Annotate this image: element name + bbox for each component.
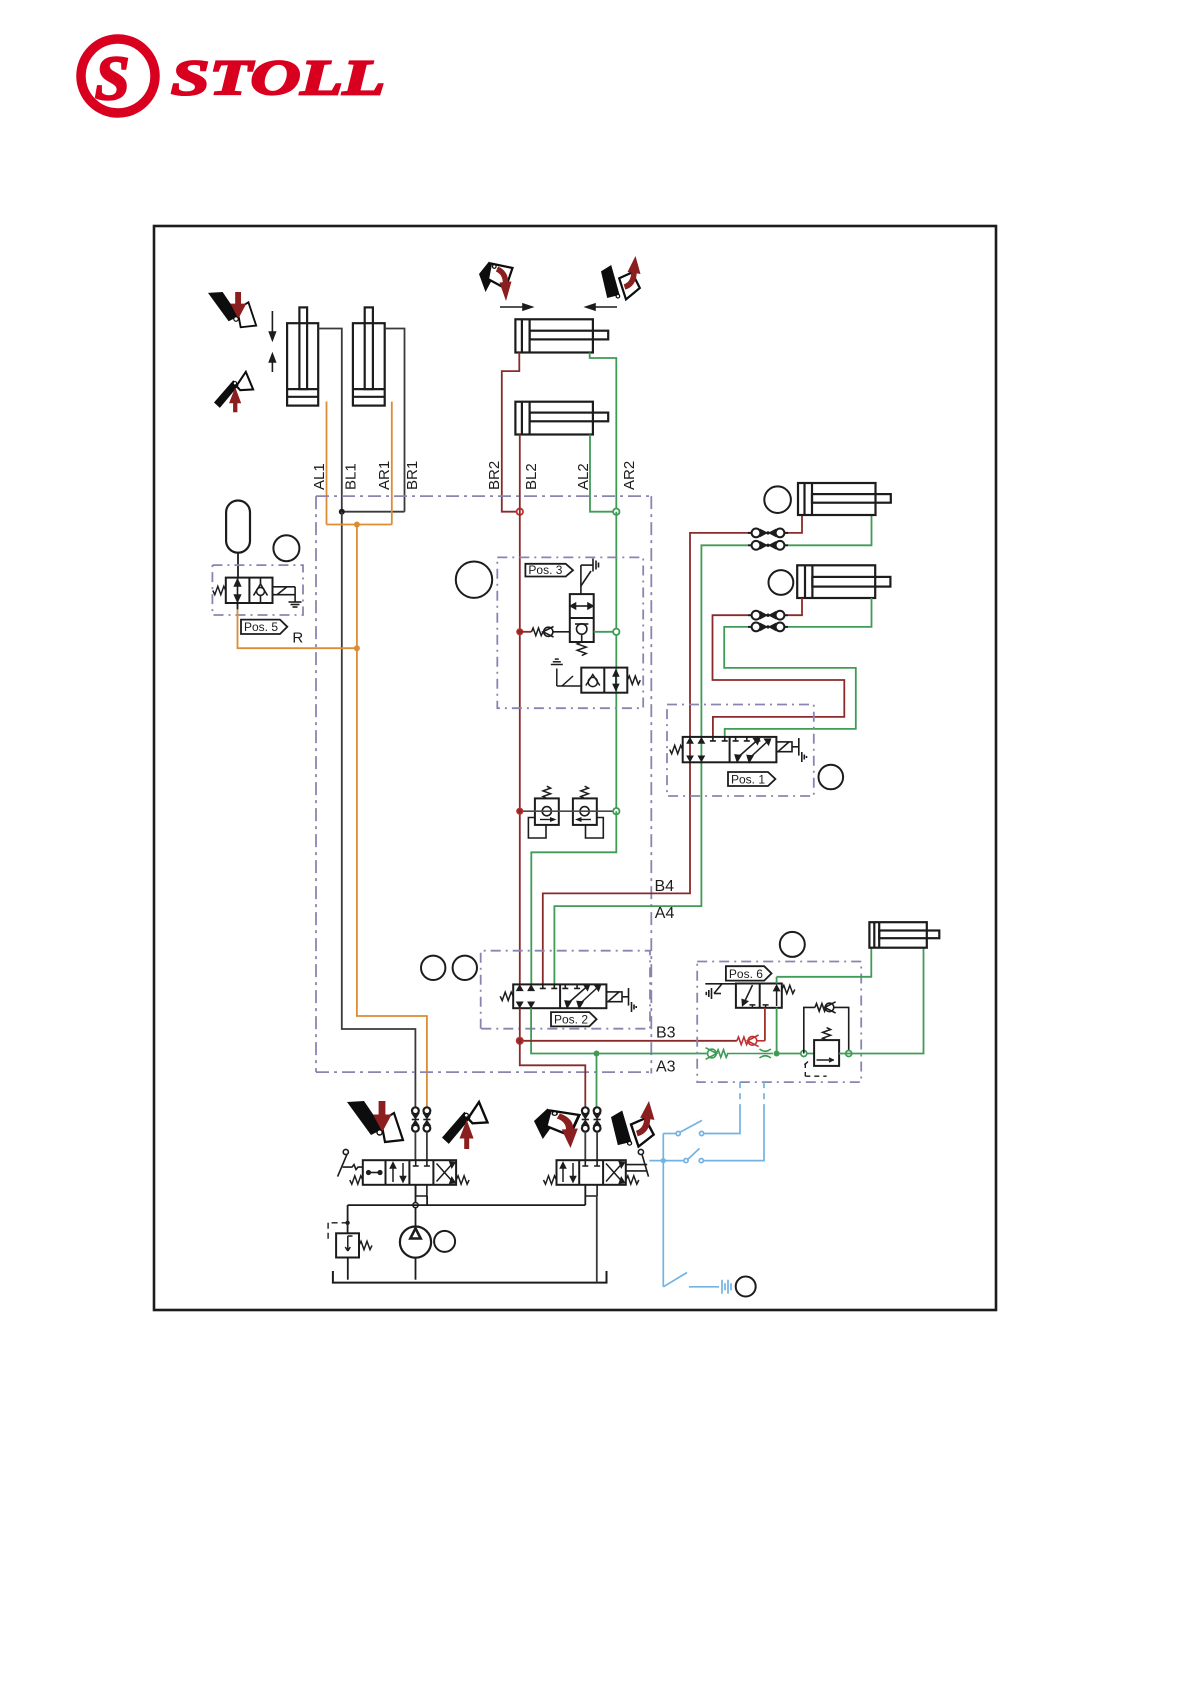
wire A3 (green below pos2) bbox=[531, 1008, 707, 1053]
svg-text:BL2: BL2 bbox=[523, 463, 540, 490]
aux cylinder 5 (pos6) bbox=[869, 922, 939, 948]
quick coupler A3 bbox=[594, 1107, 601, 1131]
quick coupler AL1 bbox=[423, 1107, 430, 1131]
pilot 2/2 arrows bbox=[613, 670, 618, 690]
left valve springs bbox=[350, 1176, 363, 1184]
right valve lever bbox=[626, 1149, 649, 1176]
valve Pos.3 lever bbox=[581, 559, 599, 595]
wire B4 (maroon) bbox=[543, 515, 802, 984]
balloon circle (pos3 area) bbox=[456, 562, 492, 598]
Pos.6 dashed box bbox=[697, 962, 861, 1083]
quick coupler B3 bbox=[582, 1107, 589, 1131]
loader icon lift-up (above left valve) bbox=[442, 1102, 488, 1149]
wire AR1 (orange) bbox=[391, 402, 393, 525]
valve Pos.2 lever bbox=[606, 988, 636, 1012]
flow restrictor green bbox=[758, 1049, 773, 1058]
valve Pos.3 lockable check bbox=[570, 594, 594, 642]
valve Pos.1 lever bbox=[776, 738, 806, 762]
valve Pos.2 body bbox=[513, 984, 606, 1008]
svg-text:BR1: BR1 bbox=[404, 461, 421, 490]
right valve drain bbox=[596, 1196, 598, 1283]
valve Pos.2 spring bbox=[500, 992, 513, 1000]
wire AR2 main down bbox=[615, 512, 617, 812]
loader boundary dash-dot box bbox=[316, 496, 651, 1073]
junction R/AL1 bbox=[354, 645, 360, 651]
pos3 tap check bbox=[543, 627, 570, 638]
wire green to reducing valve bbox=[777, 1053, 815, 1055]
tilt cylinder lower (BL2/AL2) bbox=[515, 402, 608, 435]
balloon circle cyl3 bbox=[764, 486, 791, 513]
control valve left (4/3) body bbox=[363, 1160, 456, 1185]
loader icon lift-down (above left valve) bbox=[347, 1101, 403, 1142]
wire A3 branch down bbox=[596, 1054, 598, 1108]
wire BL1 main down bbox=[342, 512, 416, 1108]
wire B3 horizontal bbox=[520, 1040, 737, 1042]
aux cylinder 3 (top right) bbox=[798, 483, 891, 515]
balloon circle pos6 bbox=[780, 932, 805, 957]
junction BL2 tap bbox=[517, 629, 523, 635]
flag Pos. 2 bbox=[551, 1012, 597, 1027]
right valve sect3 cross bbox=[606, 1162, 625, 1184]
junction AL2/AR2 bbox=[613, 509, 619, 515]
wire pos6 green top to cyl5 bbox=[777, 948, 872, 977]
svg-text:S: S bbox=[95, 45, 129, 113]
flag Pos. 6 bbox=[726, 966, 772, 981]
wire R (orange) bbox=[238, 609, 357, 648]
svg-text:STOLL: STOLL bbox=[171, 49, 385, 105]
junction bypass left bbox=[801, 1051, 807, 1057]
valve Pos.3 spring below bbox=[577, 642, 586, 656]
pump aux circle bbox=[434, 1231, 455, 1252]
wire pos6 green vertical bbox=[776, 977, 778, 1054]
balloon circles pos2 bbox=[421, 956, 445, 980]
arrow right (tilt) bbox=[500, 304, 532, 310]
junction reducing out bbox=[846, 1051, 852, 1057]
valve Pos.2 straight arrows bbox=[517, 986, 534, 1007]
wire AL1 main down bbox=[357, 525, 427, 1108]
wire A4 (green) bbox=[554, 515, 871, 984]
svg-text:R: R bbox=[292, 629, 303, 646]
svg-text:BR2: BR2 bbox=[486, 461, 503, 490]
bypass line with check bbox=[804, 1002, 849, 1054]
wire red up to valve bbox=[764, 1008, 766, 1041]
junction AR2 tap bbox=[613, 629, 619, 635]
wire AL2 (green) bbox=[590, 435, 616, 512]
valve Pos.5 spring bbox=[213, 586, 226, 594]
wire BR2 (maroon) bbox=[502, 353, 520, 512]
junction BL1 bbox=[339, 509, 345, 515]
electric wire dashes to pos6 bbox=[740, 1082, 764, 1110]
valve Pos.2 port feet bbox=[540, 984, 580, 988]
check valve red bbox=[748, 1035, 765, 1047]
valve Pos.6 right square arrow bbox=[774, 986, 779, 1006]
balloon circle cyl4 bbox=[769, 570, 794, 595]
valve Pos.6 left square symbols bbox=[742, 985, 768, 1008]
arrow left (tilt) bbox=[586, 304, 617, 310]
wire B3 (maroon below pos2) bbox=[519, 1008, 521, 1041]
left valve sect4 cross bbox=[437, 1162, 456, 1184]
drawing frame bbox=[154, 226, 996, 1310]
pos3 tap line maroon bbox=[520, 631, 532, 633]
junction AR2 at counterbalance bbox=[613, 808, 619, 814]
relief spring bbox=[359, 1241, 372, 1249]
valve Pos.6 3/2 body bbox=[736, 984, 782, 1008]
quick coupler cyl4 B bbox=[748, 611, 788, 620]
svg-text:AL1: AL1 bbox=[311, 463, 328, 490]
valve Pos.1 port feet bbox=[710, 737, 761, 741]
wire AR2 to pos2 (green) bbox=[531, 811, 616, 984]
STOLL logo bbox=[81, 39, 385, 113]
valve Pos.3 check symbol bbox=[575, 624, 588, 642]
svg-text:BL1: BL1 bbox=[343, 463, 360, 490]
loader icon tilt-down (above right valve) bbox=[534, 1109, 579, 1149]
tilt cylinder upper (BR2/AR2) bbox=[515, 319, 608, 352]
Pos.3 dashed box bbox=[497, 557, 643, 708]
loader icon tilt-up (above right valve) bbox=[611, 1101, 654, 1147]
quick coupler B4 bbox=[748, 529, 788, 538]
valve Pos.5 body bbox=[226, 578, 273, 603]
valve Pos.3 arrows bbox=[571, 603, 594, 609]
svg-text:B3: B3 bbox=[656, 1025, 676, 1042]
Pos.1 dashed box bbox=[667, 705, 814, 797]
wire cyl4 A (green) bbox=[724, 598, 871, 737]
right valve sect2 float ports bbox=[582, 1160, 600, 1196]
svg-text:Pos. 3: Pos. 3 bbox=[528, 563, 562, 577]
wire B3 branch down bbox=[520, 1041, 586, 1108]
wire BL2 (maroon main) bbox=[519, 435, 521, 985]
pressure line bbox=[348, 1185, 586, 1227]
counterbalance valve left bbox=[528, 786, 558, 838]
loader icon tilt-up bbox=[601, 256, 641, 299]
quick coupler cyl4 A bbox=[748, 623, 788, 632]
aux cylinder 4 (mid right) bbox=[797, 565, 890, 598]
valve pos3 pilot 2/2 body bbox=[581, 668, 627, 693]
svg-text:Pos. 6: Pos. 6 bbox=[729, 967, 763, 981]
wires below couplers bbox=[415, 1132, 597, 1161]
accumulator bbox=[226, 501, 250, 578]
junction AL1 bbox=[354, 522, 360, 528]
junction A3 bbox=[594, 1051, 600, 1057]
valve Pos.1 cross arrows bbox=[735, 739, 770, 762]
junction pos6 green bbox=[774, 1051, 780, 1057]
valve Pos.2 cross arrows bbox=[565, 985, 600, 1008]
flag Pos. 5 bbox=[241, 620, 287, 634]
tank line bbox=[333, 1271, 607, 1283]
Pos.5 dashed box bbox=[212, 565, 303, 615]
valve Pos.1 straight arrows bbox=[687, 738, 704, 760]
pos3 tap spring bbox=[532, 628, 543, 636]
left valve sect1 closed-H bbox=[367, 1171, 382, 1175]
svg-text:Pos. 5: Pos. 5 bbox=[244, 620, 278, 634]
svg-text:Pos. 1: Pos. 1 bbox=[731, 772, 765, 786]
right valve sect1 arrows bbox=[560, 1163, 575, 1182]
valve Pos.1 body bbox=[683, 737, 777, 762]
loader icon lift-down (top left) bbox=[208, 292, 256, 327]
lift cylinder left (AL1/BL1) bbox=[287, 307, 318, 405]
junction BL2 at counterbalance bbox=[517, 808, 523, 814]
wire cyl4 B (maroon) bbox=[713, 598, 845, 737]
reducing valve drain dashes bbox=[802, 1062, 827, 1077]
valve Pos.1 spring bbox=[670, 745, 683, 753]
counterbalance link line bbox=[520, 810, 617, 812]
pilot 2/2 pilot line + ground bbox=[551, 659, 582, 686]
arrow down between icons bbox=[269, 311, 275, 340]
pilot 2/2 spring right bbox=[627, 676, 640, 684]
quick coupler A4 bbox=[748, 541, 788, 550]
balloon circle battery bbox=[736, 1277, 756, 1297]
svg-text:B4: B4 bbox=[655, 878, 675, 895]
arrow up bbox=[269, 354, 275, 372]
lift cylinder right (AR1/BR1) bbox=[353, 307, 385, 405]
loader icon lift-up (below it) bbox=[214, 372, 253, 412]
valve Pos.5 check bbox=[254, 578, 268, 603]
Pos.2 dashed box bbox=[481, 951, 650, 1029]
wire AL1 (orange) bbox=[326, 402, 328, 525]
control valve right (4/3) body bbox=[557, 1160, 626, 1185]
wire BR1 (black) bbox=[385, 329, 405, 512]
wire BL1 (black) bbox=[318, 329, 342, 512]
electric circuit light blue bbox=[649, 1110, 764, 1294]
relief valve bbox=[336, 1233, 359, 1257]
junction B3 bbox=[517, 1038, 524, 1045]
wire green reducing out bbox=[839, 948, 923, 1054]
pressure reducing valve bbox=[814, 1028, 839, 1066]
quick coupler BL1 bbox=[412, 1107, 419, 1131]
left valve sect3 float ports bbox=[413, 1160, 430, 1196]
balloon circle pos1 bbox=[819, 765, 844, 790]
wire BL1/BR1 tie bbox=[342, 511, 405, 513]
wire AR2 (green upper) bbox=[590, 353, 617, 512]
junction BR2/BL2 bbox=[517, 509, 523, 515]
relief valve line bbox=[347, 1205, 349, 1233]
wire pos6 red feed bbox=[737, 1037, 748, 1045]
valve Pos.6 lever bar + ground bbox=[705, 984, 736, 999]
wire AL1/AR1 tie bbox=[327, 524, 392, 526]
svg-text:Pos. 2: Pos. 2 bbox=[554, 1013, 588, 1027]
svg-text:A3: A3 bbox=[656, 1059, 676, 1076]
balloon circle (pos5 area) bbox=[273, 535, 299, 561]
svg-text:A4: A4 bbox=[655, 905, 675, 922]
svg-text:AR2: AR2 bbox=[621, 461, 638, 490]
right valve springs bbox=[544, 1176, 557, 1184]
pos3 out line to green bbox=[594, 631, 617, 633]
pilot 2/2 check bbox=[586, 675, 600, 687]
wire R (black stub) bbox=[237, 603, 239, 609]
relief drain bbox=[347, 1258, 349, 1280]
counterbalance valve right bbox=[573, 786, 603, 838]
valve Pos.5 lever bbox=[273, 587, 302, 607]
pump junction ring bbox=[413, 1203, 418, 1208]
pump bbox=[400, 1227, 431, 1280]
valve Pos.6 spring right bbox=[782, 985, 795, 993]
loader icon tilt-down (top middle) bbox=[479, 262, 513, 302]
svg-text:AR1: AR1 bbox=[376, 461, 393, 490]
electric node bbox=[661, 1158, 666, 1163]
relief pilot dot bbox=[345, 1221, 349, 1225]
left valve joystick lever bbox=[338, 1149, 363, 1176]
left valve sect2 arrows bbox=[390, 1163, 405, 1182]
valve Pos.5 flow arrows bbox=[235, 578, 241, 603]
check valve green inline bbox=[706, 1048, 758, 1060]
flag Pos. 3 bbox=[525, 563, 573, 577]
relief pilot dashes bbox=[328, 1223, 348, 1243]
flag Pos. 1 bbox=[728, 772, 775, 786]
